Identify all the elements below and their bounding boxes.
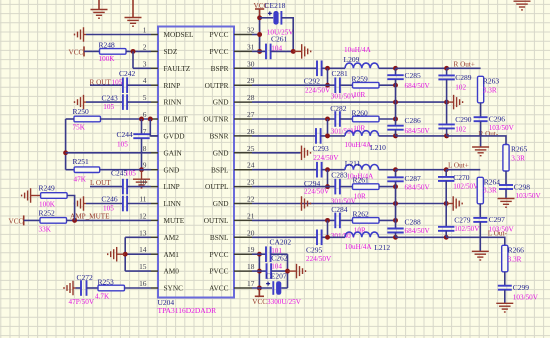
junction GND mid L	[393, 201, 398, 206]
svg-text:22: 22	[247, 195, 255, 204]
svg-text:47K: 47K	[74, 176, 87, 184]
svg-text:102/50V: 102/50V	[454, 225, 480, 233]
wire R264 to C297	[479, 204, 481, 218]
wire bootstrap L2 vertical	[327, 220, 329, 237]
svg-text:RINN: RINN	[164, 98, 183, 107]
signal ground (pin 5)	[75, 95, 87, 110]
svg-text:C272: C272	[77, 273, 94, 282]
svg-text:3: 3	[143, 59, 147, 68]
svg-text:R266: R266	[508, 246, 525, 255]
capacitor C293	[316, 128, 321, 144]
op-amp U1 body (IC U204 TPA3116D2DADR)	[158, 27, 234, 298]
ground (C297)	[472, 251, 489, 260]
svg-text:103/50V: 103/50V	[513, 294, 539, 302]
svg-text:3.3R: 3.3R	[511, 155, 525, 163]
svg-text:105: 105	[117, 141, 128, 149]
capacitor CE218 (polarized)	[268, 11, 282, 25]
svg-text:4: 4	[143, 76, 147, 85]
svg-text:102/50V: 102/50V	[453, 182, 479, 190]
wire VCC to R248	[84, 50, 100, 52]
wire R251 to pin9	[100, 169, 151, 171]
capacitor CA202	[266, 246, 271, 262]
svg-text:13: 13	[139, 228, 147, 237]
svg-text:10: 10	[139, 178, 147, 187]
ground (C244)	[133, 170, 150, 188]
wire bootstrap L vertical	[327, 170, 329, 187]
wire pin21 OUTNL	[252, 219, 335, 221]
wire R252 to pin12	[67, 219, 152, 221]
signal ground (L channel)	[446, 196, 462, 211]
svg-text:100K: 100K	[99, 55, 116, 63]
junction pin17	[257, 286, 262, 291]
wire R261 to gnd column	[379, 186, 396, 188]
svg-text:C290: C290	[455, 115, 472, 124]
capacitor C299	[498, 286, 512, 290]
wire to C287	[395, 170, 397, 178]
svg-text:19: 19	[247, 245, 255, 254]
inductor L211	[345, 165, 379, 170]
wire R Out+ to R263	[447, 67, 481, 69]
svg-text:R263: R263	[483, 77, 500, 86]
wire L Out+ to R264	[446, 169, 480, 171]
wire pin30 BSPR	[252, 67, 317, 69]
svg-text:C295: C295	[306, 246, 323, 255]
wire C270 to C279	[445, 181, 447, 227]
svg-text:BSPR: BSPR	[211, 64, 229, 73]
svg-text:C282: C282	[330, 104, 347, 113]
wire pin25 GND	[252, 152, 300, 154]
junction OUTNL	[325, 218, 330, 223]
svg-text:102: 102	[455, 126, 466, 134]
svg-text:MUTE: MUTE	[164, 216, 185, 225]
svg-text:C298: C298	[514, 182, 531, 191]
wire pin1 MODSEL	[86, 34, 151, 36]
svg-text:224/50V: 224/50V	[306, 255, 332, 263]
resistor R261	[353, 184, 380, 190]
wire to C289	[396, 67, 447, 69]
wire bootstrap R vertical	[327, 68, 329, 85]
svg-text:10R: 10R	[353, 91, 365, 99]
svg-text:C283: C283	[331, 170, 348, 179]
VCC bar (R248)	[83, 46, 85, 56]
svg-text:GND: GND	[213, 199, 229, 208]
wire to C270	[445, 170, 447, 177]
svg-text:CA202: CA202	[270, 238, 292, 247]
wire R266 to C299	[504, 272, 506, 286]
signal ground (R channel)	[447, 95, 463, 110]
wire C297 to ground	[479, 222, 481, 251]
svg-text:10uH/4A: 10uH/4A	[344, 46, 372, 54]
capacitor C290	[438, 124, 454, 128]
capacitor CE207 (polarized)	[266, 281, 281, 295]
capacitor C244	[133, 134, 149, 138]
svg-text:23: 23	[247, 178, 255, 187]
svg-text:12: 12	[139, 211, 147, 220]
wire pin14 AM1	[125, 253, 151, 255]
capacitor C279	[438, 227, 454, 231]
junction BSPR-OUTPR	[325, 66, 330, 71]
wire to C244	[141, 119, 143, 134]
capacitor C281	[335, 77, 340, 93]
resistor R264	[477, 177, 483, 204]
resistor R262	[353, 218, 380, 224]
resistor R263	[478, 76, 484, 103]
junction AM	[123, 252, 128, 257]
junction node SDZ	[131, 49, 136, 54]
svg-text:GVDD: GVDD	[164, 132, 185, 141]
resistor R252	[40, 218, 67, 224]
wire C287 to C288	[395, 181, 397, 228]
svg-text:CE218: CE218	[265, 1, 286, 10]
svg-text:R252: R252	[39, 208, 56, 217]
capacitor C272	[81, 280, 87, 296]
capacitor C288	[387, 229, 403, 233]
svg-text:L Out+: L Out+	[448, 162, 469, 170]
junction BSNL	[325, 235, 330, 240]
svg-text:LINN: LINN	[164, 199, 182, 208]
resistor R248	[100, 49, 127, 55]
capacitor C286	[387, 126, 403, 130]
junction pin19	[257, 252, 262, 257]
wire L211 out	[379, 169, 396, 171]
junction pin31	[257, 49, 262, 54]
wire R259 to gnd column	[379, 84, 396, 86]
svg-text:C262: C262	[271, 254, 288, 263]
junction C261 ground	[291, 49, 296, 54]
wire right column AVCC cluster	[287, 254, 289, 288]
junction PLIMIT-C244	[139, 117, 144, 122]
svg-text:105: 105	[125, 169, 136, 177]
capacitor C245	[123, 179, 127, 195]
svg-text:3300U/25V: 3300U/25V	[267, 298, 302, 306]
svg-text:SYNC: SYNC	[164, 284, 184, 293]
wire C294 to L211	[321, 169, 345, 171]
svg-text:AM1: AM1	[164, 250, 180, 259]
wire C292 to L209	[321, 67, 345, 69]
svg-text:684/50V: 684/50V	[405, 127, 431, 135]
capacitor C295	[317, 230, 322, 246]
junction R Out-	[444, 133, 449, 138]
wire to R251	[66, 169, 75, 171]
svg-text:L212: L212	[374, 243, 390, 252]
wire R250 left	[66, 118, 74, 120]
VCC bar (R252)	[23, 215, 25, 225]
junction R Out+	[444, 66, 449, 71]
wire C285 to C286	[395, 79, 397, 126]
signal ground (pin25)	[300, 146, 311, 161]
wire to pin3 FAULTZ	[133, 67, 151, 69]
svg-text:18: 18	[247, 262, 255, 271]
svg-text:2: 2	[143, 42, 147, 51]
svg-text:20: 20	[247, 228, 255, 237]
wire gnd to C243	[86, 101, 123, 103]
capacitor C294	[317, 162, 322, 178]
svg-text:32: 32	[247, 26, 255, 35]
wire to C270	[396, 169, 447, 171]
svg-text:LINP: LINP	[164, 182, 180, 191]
svg-text:100K: 100K	[39, 201, 56, 209]
wire pin28 GND	[252, 101, 447, 103]
ground (top left 2)	[125, 18, 142, 27]
wire L212 out	[379, 236, 396, 238]
svg-text:C284: C284	[331, 205, 348, 214]
svg-text:103/50V: 103/50V	[489, 225, 515, 233]
ground (top left 1)	[91, 10, 108, 19]
junction OUTNR	[325, 117, 330, 122]
svg-text:AMP_MUTE: AMP_MUTE	[70, 213, 110, 221]
wire pin17 to CE207	[252, 287, 272, 289]
svg-text:C261: C261	[271, 34, 288, 43]
wire C279 to row20	[445, 231, 447, 238]
svg-text:AM0: AM0	[164, 267, 180, 276]
svg-text:OUTPR: OUTPR	[205, 81, 229, 90]
wire C290 to row26	[446, 128, 448, 136]
junction BSPL	[325, 167, 330, 172]
junction pin18	[257, 269, 262, 274]
svg-text:OUTNR: OUTNR	[203, 115, 228, 124]
wire R248 to pin2	[126, 50, 151, 52]
svg-text:AVCC: AVCC	[209, 284, 228, 293]
svg-text:R Out+: R Out+	[454, 61, 475, 69]
capacitor C283	[335, 179, 340, 195]
svg-text:PVCC: PVCC	[209, 250, 228, 259]
svg-text:C242: C242	[119, 69, 136, 78]
svg-text:25: 25	[247, 144, 255, 153]
wire pin15 AM0	[125, 270, 151, 272]
svg-text:47P/50V: 47P/50V	[69, 298, 95, 306]
svg-text:GND: GND	[164, 165, 180, 174]
capacitor C262	[267, 263, 272, 279]
wire pin29 OUTPR	[252, 84, 335, 86]
VCC bar (AVCC)	[258, 288, 260, 296]
svg-text:10uH/4A: 10uH/4A	[345, 243, 373, 251]
wire R265 to C298	[505, 171, 507, 185]
svg-text:10uH/4A: 10uH/4A	[345, 141, 373, 149]
svg-text:103/50V: 103/50V	[516, 192, 542, 200]
wire R262 to gnd column	[379, 219, 396, 221]
wire R260 to gnd column	[379, 118, 396, 120]
VCC bar (PVCC)	[255, 8, 264, 10]
wire pin24 BSPL	[252, 169, 317, 171]
svg-text:8: 8	[143, 144, 147, 153]
svg-text:3.3R: 3.3R	[483, 187, 497, 195]
svg-text:C286: C286	[405, 116, 422, 125]
wire pin8 GAIN	[66, 152, 151, 154]
capacitor C282	[335, 111, 340, 127]
wire C284 to R262	[340, 219, 353, 221]
wire R250 to R251 vertical	[65, 119, 67, 170]
wire C299 to ground	[504, 290, 506, 304]
signal ground (AM pins)	[108, 247, 126, 262]
wire C288 to row20	[395, 233, 397, 238]
svg-text:28: 28	[247, 93, 255, 102]
wire VCC to R252	[24, 219, 40, 221]
svg-text:PLIMIT: PLIMIT	[164, 115, 189, 124]
svg-text:11: 11	[139, 195, 146, 204]
junction R260	[393, 117, 398, 122]
svg-text:C244: C244	[117, 130, 134, 139]
wire PVCC vertical	[259, 18, 261, 52]
junction R262	[393, 218, 398, 223]
svg-text:15: 15	[139, 262, 147, 271]
wire C243 to pin5	[127, 101, 151, 103]
signal ground (pin22)	[300, 196, 311, 211]
wire C286 to row26	[395, 130, 397, 136]
svg-text:R248: R248	[99, 41, 116, 50]
svg-text:BSPL: BSPL	[211, 165, 229, 174]
capacitor C246	[123, 196, 127, 212]
svg-text:C293: C293	[313, 144, 330, 153]
wire L Out- to R266	[446, 237, 505, 245]
wire C246 to pin11	[127, 203, 151, 205]
wire pin31 to C261	[252, 50, 266, 52]
svg-text:5: 5	[143, 93, 147, 102]
wire R Out- to R265	[447, 136, 506, 145]
signal ground (C261)	[293, 44, 311, 59]
capacitor C298	[499, 185, 513, 189]
capacitor C242	[123, 77, 127, 93]
wire to C279 bottom	[396, 236, 447, 238]
svg-text:PVCC: PVCC	[209, 30, 228, 39]
wire to top ground 1	[98, 0, 100, 10]
junction L filter top	[393, 167, 398, 172]
svg-text:17: 17	[247, 279, 255, 288]
ground (C296)	[472, 147, 489, 156]
wire gnd to C246	[86, 203, 123, 205]
wire CE207 right	[281, 287, 287, 289]
wire pin19 to CA202	[252, 253, 266, 255]
svg-text:R251: R251	[73, 157, 90, 166]
signal ground (pin 1)	[75, 27, 87, 42]
signal ground (pin 11)	[75, 196, 87, 211]
svg-text:GND: GND	[213, 98, 229, 107]
svg-text:21: 21	[247, 211, 255, 220]
svg-text:C281: C281	[332, 69, 349, 78]
wire to C289	[446, 68, 448, 75]
junction PLIMIT-GVDD	[148, 117, 153, 122]
wire junction to pin7 GVDD	[150, 119, 158, 136]
wire pin27 OUTNR	[252, 118, 335, 120]
resistor R253	[98, 285, 125, 291]
resistor R266	[502, 245, 508, 271]
wire pin22 GND	[252, 203, 446, 205]
capacitor C261	[266, 44, 271, 60]
wire C244 to GND row	[141, 138, 143, 170]
svg-text:C296: C296	[489, 115, 506, 124]
capacitor C292	[317, 61, 322, 77]
signal ground (R249)	[22, 188, 41, 203]
wire pin13 AM2	[125, 236, 151, 238]
svg-text:3.3R: 3.3R	[508, 256, 522, 264]
resistor R251	[74, 167, 100, 173]
svg-text:75K: 75K	[73, 123, 86, 131]
resistor R265	[503, 145, 509, 172]
junction OUTPR	[325, 83, 330, 88]
junction R filter top	[393, 66, 398, 71]
wire C296 to ground	[480, 121, 482, 147]
capacitor C287	[387, 177, 403, 181]
ground (C299)	[496, 303, 513, 312]
svg-text:AM2: AM2	[164, 233, 180, 242]
signal ground (C272)	[64, 281, 76, 296]
junction L filter bottom	[393, 235, 398, 240]
inductor L209	[345, 63, 379, 68]
wire bootstrap R2 vertical	[327, 119, 329, 136]
resistor R259	[353, 82, 380, 88]
svg-text:103/50V: 103/50V	[489, 124, 515, 132]
junction R261	[393, 184, 398, 189]
wire C283 to R261	[340, 186, 353, 188]
capacitor C296	[474, 117, 488, 121]
svg-text:684/50V: 684/50V	[405, 82, 431, 90]
wire AM bus vertical	[124, 237, 126, 271]
svg-text:C299: C299	[513, 283, 530, 292]
wire CE218 to gnd column	[281, 18, 293, 52]
svg-text:R265: R265	[511, 145, 528, 154]
svg-text:C297: C297	[489, 215, 506, 224]
wire to C290 bottom	[396, 135, 447, 137]
wire pin26 BSNR	[252, 135, 316, 137]
svg-text:CE207: CE207	[266, 272, 287, 281]
svg-text:C287: C287	[405, 174, 422, 183]
junction GND right L	[444, 201, 449, 206]
inductor L210	[345, 131, 379, 136]
svg-text:PVCC: PVCC	[209, 47, 228, 56]
svg-text:GND: GND	[213, 148, 229, 157]
svg-text:31: 31	[247, 42, 255, 51]
capacitor C297	[473, 218, 487, 222]
svg-text:3.3R: 3.3R	[483, 86, 497, 94]
svg-text:L210: L210	[370, 143, 386, 152]
junction GND right R	[444, 100, 449, 105]
svg-text:OUTPL: OUTPL	[205, 182, 229, 191]
wire pin20 BSNL	[252, 236, 317, 238]
junction OUTPL	[325, 184, 330, 189]
ground (top right)	[514, 1, 531, 10]
wire C281 to R259	[340, 84, 353, 86]
svg-text:16: 16	[139, 279, 147, 288]
svg-text:105: 105	[103, 205, 114, 213]
wire R263 to C296	[480, 103, 482, 117]
svg-text:BSNR: BSNR	[209, 132, 228, 141]
wire pin32 to PVCC column	[252, 34, 260, 36]
svg-text:OUTNL: OUTNL	[204, 216, 229, 225]
svg-text:24: 24	[247, 161, 255, 170]
svg-text:26: 26	[247, 127, 255, 136]
svg-text:VCC: VCC	[252, 298, 267, 306]
junction GND mid R	[393, 100, 398, 105]
ground (C298)	[498, 199, 515, 208]
junction C262 ground	[285, 269, 290, 274]
wire AVCC vertical	[258, 254, 260, 288]
wire C262 right	[271, 270, 288, 272]
svg-text:27: 27	[247, 110, 255, 119]
wire R OUT to C242	[90, 84, 123, 86]
svg-text:R264: R264	[484, 178, 501, 187]
wire junction down	[132, 51, 134, 68]
wire R250 to pin6	[100, 118, 151, 120]
svg-text:SDZ: SDZ	[164, 47, 178, 56]
wire C261 to ground	[270, 50, 293, 52]
svg-text:29: 29	[247, 76, 255, 85]
wire gnd to C272	[76, 287, 82, 289]
resistor R249	[41, 193, 68, 199]
wire to C285	[395, 68, 397, 75]
svg-text:C246: C246	[101, 194, 118, 203]
svg-text:30: 30	[247, 59, 255, 68]
svg-text:684/50V: 684/50V	[405, 227, 431, 235]
junction GAIN	[63, 150, 68, 155]
